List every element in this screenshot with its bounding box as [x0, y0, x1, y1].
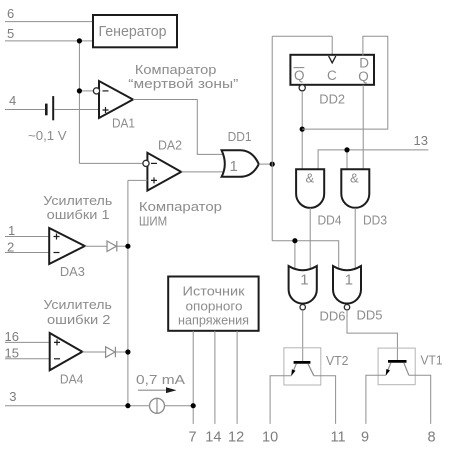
wire DD4 output to DD6 [309, 208, 311, 270]
svg-text:DA2: DA2 [158, 138, 182, 153]
svg-text:DD1: DD1 [228, 129, 252, 144]
wire diode2 to bus [115, 351, 128, 353]
svg-text:&: & [350, 170, 359, 185]
svg-text:DA1: DA1 [112, 116, 135, 131]
wire VT1 collector to pin8 [409, 375, 431, 424]
svg-text:9: 9 [361, 430, 369, 446]
svg-text:C: C [327, 68, 337, 83]
battery 0.1V short bar [45, 104, 48, 116]
svg-text:7: 7 [189, 429, 197, 445]
wire pin12 [236, 331, 238, 424]
svg-text:VT2: VT2 [326, 353, 349, 368]
svg-text:ошибки 1: ошибки 1 [47, 207, 110, 222]
svg-text:Источник: Источник [183, 283, 245, 298]
svg-text:6: 6 [7, 6, 14, 21]
node DA3 junction [125, 244, 130, 249]
DA2 minus sign [151, 162, 157, 164]
svg-text:8: 8 [428, 430, 436, 446]
VT1 emitter arrow [386, 369, 390, 376]
DA1 inverting bubble [93, 88, 99, 94]
svg-text:DA4: DA4 [60, 371, 84, 386]
wire clock top horizontal [272, 35, 332, 37]
svg-text:10: 10 [262, 430, 278, 446]
node DA4 junction [125, 349, 130, 354]
wire DA4 output [82, 351, 105, 353]
svg-text:&: & [306, 170, 315, 185]
wire clock drop to C input [331, 36, 333, 56]
wire pin6 to generator [5, 21, 93, 23]
node DD6 input junction [292, 238, 297, 243]
wire pin15 [5, 358, 50, 360]
wire sawtooth vertical from pin5 junction [78, 41, 80, 163]
node DD1 output junction [270, 162, 275, 167]
wire DA2 plus input [128, 179, 147, 181]
op-amp DA1 dead-time comparator [99, 81, 133, 118]
VT1 collector [404, 363, 409, 376]
wire pin7 [192, 331, 194, 424]
svg-text:5: 5 [7, 26, 14, 41]
wire DD6 output to VT2 base [302, 310, 304, 361]
DD2 clock edge mark [329, 56, 336, 63]
node pin3 junction [125, 403, 130, 408]
wire sawtooth to DA2 inverting input [79, 162, 143, 164]
battery 0.1V long bar [52, 96, 54, 120]
wire current source to pin7 [165, 405, 194, 407]
reference source box [168, 277, 258, 331]
node junction DA1 inverting [77, 88, 82, 93]
wire pin4 to battery [5, 109, 45, 111]
svg-text:DD6: DD6 [320, 308, 346, 323]
VT2 base bar [294, 361, 311, 364]
VT2 emitter [291, 364, 296, 376]
flip-flop DD2 box [290, 55, 374, 85]
wire Q output down to DD3 [362, 85, 364, 169]
current source bar [156, 398, 158, 413]
current direction arrow [138, 389, 168, 391]
DA3 plus sign [54, 234, 60, 240]
svg-text:~0,1 V: ~0,1 V [28, 128, 67, 143]
DA1 minus sign [103, 90, 109, 92]
wire DD6 left input [294, 241, 296, 270]
wire clock bus vertical [271, 36, 273, 240]
wire pin13 [318, 150, 428, 169]
current source 0,7mA circle [150, 398, 165, 413]
svg-text:ошибки 2: ошибки 2 [47, 312, 111, 327]
svg-text:1: 1 [230, 158, 238, 175]
svg-text:VT1: VT1 [421, 352, 443, 367]
DA2 inverting bubble [143, 160, 149, 166]
AND gate DD3 [341, 169, 369, 208]
wire pin5 to generator [5, 40, 93, 42]
DA1 plus sign [103, 107, 109, 113]
wire DA3 output [85, 245, 107, 247]
svg-text:0,7 mA: 0,7 mA [136, 372, 185, 387]
svg-text:“мертвой зоны”: “мертвой зоны” [128, 76, 238, 91]
wire VT1 emitter to pin9 [366, 375, 386, 424]
DA3 minus sign [54, 252, 60, 254]
wire pin1 [5, 236, 49, 238]
svg-text:опорного: опорного [186, 298, 243, 313]
op-amp DA4 error amp 2 [50, 333, 83, 370]
wire DD3 output to DD5 [354, 208, 356, 270]
svg-text:Компаратор: Компаратор [139, 199, 222, 214]
svg-text:Q: Q [358, 69, 369, 84]
AND gate DD4 [296, 169, 324, 208]
wire VT2 collector to pin11 [314, 376, 336, 424]
svg-text:12: 12 [228, 429, 244, 445]
svg-text:DD3: DD3 [363, 213, 387, 228]
svg-text:13: 13 [414, 133, 428, 148]
svg-text:Q: Q [294, 68, 305, 83]
svg-text:Генератор: Генератор [99, 23, 167, 40]
svg-text:Усилитель: Усилитель [43, 193, 112, 208]
svg-text:14: 14 [205, 429, 221, 445]
wire DA1 output [133, 100, 228, 155]
node Qbar feedback junction [300, 127, 305, 132]
wire Qbar down to DD4 [301, 91, 303, 169]
wire clock to DD6/DD5 rail [272, 241, 339, 268]
DA4 plus sign [54, 339, 60, 345]
NOR gate DD5 [333, 266, 361, 304]
wire DD1 output [259, 163, 272, 165]
transistor VT2 box [284, 348, 321, 385]
wire feedback to D input [302, 36, 388, 129]
generator box [93, 15, 177, 47]
VT2 collector [308, 364, 314, 376]
svg-text:напряжения: напряжения [178, 313, 249, 328]
svg-text:Усилитель: Усилитель [43, 297, 112, 312]
wire VT2 emitter to pin10 [270, 376, 291, 424]
node junction pin5 [77, 38, 82, 43]
wire feedback vertical bus [127, 180, 129, 405]
wire diode to bus [117, 245, 128, 247]
wire pin13 branch to DD3 [346, 150, 348, 169]
svg-text:11: 11 [331, 430, 346, 446]
svg-text:1: 1 [8, 223, 15, 238]
NOR gate DD6 [289, 266, 317, 304]
svg-text:DD5: DD5 [357, 308, 383, 323]
wire pin3 [5, 405, 150, 407]
wire stub to DA1 inverting bubble [79, 90, 93, 92]
svg-text:1: 1 [345, 271, 353, 288]
wire pin2 [5, 252, 49, 254]
diode VD2 [106, 347, 116, 358]
node pin7 junction [191, 403, 196, 408]
svg-text:3: 3 [9, 389, 16, 404]
svg-text:ШИМ: ШИМ [139, 213, 167, 228]
svg-text:Компаратор: Компаратор [135, 62, 217, 77]
DD6 output bubble [300, 305, 305, 310]
diode VD1 [107, 241, 117, 252]
wire pin14 [214, 331, 216, 424]
DA2 plus sign [151, 177, 157, 183]
wire DA2 output to DD1 [181, 171, 228, 173]
VT1 base bar [388, 360, 407, 363]
wire battery to DA1 plus [54, 109, 99, 111]
VT2 emitter arrow [291, 369, 295, 376]
svg-text:1: 1 [300, 271, 308, 288]
svg-text:DD2: DD2 [319, 92, 345, 107]
svg-text:4: 4 [9, 93, 16, 108]
transistor VT1 box [378, 348, 415, 385]
node pin13 junction [344, 147, 349, 152]
DD5 output bubble [344, 305, 349, 310]
svg-text:DA3: DA3 [60, 264, 85, 279]
wire pin16 [5, 341, 50, 343]
VT1 emitter [386, 363, 391, 375]
op-amp DA2 PWM comparator [147, 153, 181, 191]
wire DD5 output jog to VT1 base [347, 310, 397, 361]
op-amp DA3 error amp 1 [49, 228, 85, 264]
svg-text:DD4: DD4 [318, 213, 342, 228]
OR gate DD1 [222, 150, 259, 177]
DA4 minus sign [54, 358, 60, 360]
DD2 Qbar output bubble [299, 85, 305, 91]
